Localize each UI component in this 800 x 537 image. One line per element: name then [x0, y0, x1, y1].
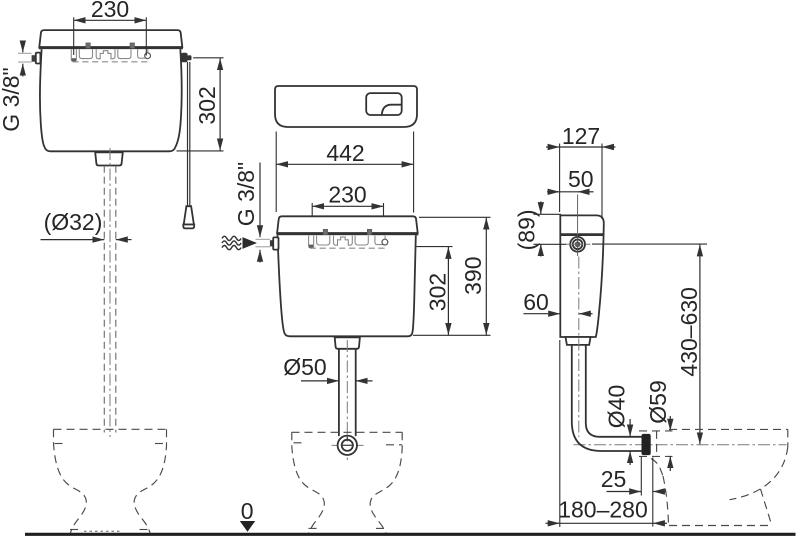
dimension 302 (middle view) [417, 246, 453, 248]
water supply symbol (wavy lines + arrow) [222, 236, 241, 240]
chain handle [184, 206, 194, 224]
svg-text:0: 0 [241, 498, 254, 524]
outlet stub (left view) [95, 152, 123, 165]
svg-text:302: 302 [425, 273, 451, 311]
WC bowl outline (side view, dashed) [669, 428, 788, 430]
dual flush button (top view) [366, 93, 402, 115]
svg-text:390: 390 [460, 257, 486, 295]
cistern side profile [560, 215, 604, 337]
svg-text:230: 230 [91, 0, 129, 22]
svg-text:180–280: 180–280 [558, 497, 648, 523]
pipe centerline (middle view) [346, 340, 348, 462]
cistern lid rim line (left view) [39, 47, 183, 50]
svg-text:25: 25 [601, 466, 627, 492]
flush mechanism (left view, seen through tank) [71, 43, 150, 62]
svg-text:Ø59: Ø59 [645, 380, 671, 423]
cistern tank body (middle view) [278, 235, 416, 336]
pull chain [187, 62, 189, 206]
flush pipe centerline (side view) [578, 257, 580, 438]
cistern lid (left view) [39, 30, 182, 47]
float valve circle [145, 53, 151, 59]
svg-text:127: 127 [562, 123, 600, 149]
svg-text:50: 50 [568, 166, 594, 192]
hidden flush pipe (left view) [103, 166, 105, 433]
pipe end circles (middle view) [338, 436, 357, 455]
svg-text:G 3/8": G 3/8" [233, 162, 259, 226]
svg-text:Ø50: Ø50 [283, 354, 326, 380]
svg-text:430–630: 430–630 [676, 287, 702, 377]
flush pipe with elbow (side view) [572, 345, 642, 451]
cistern tank body (left view) [40, 49, 182, 151]
lid top view [275, 86, 417, 127]
svg-text:302: 302 [194, 86, 220, 124]
flush pipe (middle view) [338, 349, 340, 436]
dimension 430-630 [592, 243, 707, 245]
small flush segment of button [382, 105, 402, 115]
flush mechanism (middle view) [309, 229, 388, 248]
fitting dimension arrows (left) [22, 42, 24, 53]
tank skirt (side view) [566, 337, 591, 345]
flush valve push button (side view) [570, 237, 585, 252]
toilet bowl outline (middle view, dashed) [292, 431, 403, 433]
cistern lid rim line (middle view) [277, 233, 419, 236]
pipe centerline (left view) [109, 148, 111, 437]
WC bowl inlet spigot (dashed) [639, 430, 673, 432]
svg-text:(Ø32): (Ø32) [44, 209, 103, 235]
ground line [25, 533, 796, 536]
mounting studs [86, 43, 90, 48]
lid rim line (side view) [560, 233, 604, 236]
cistern lid (middle view) [277, 216, 418, 233]
svg-text:Ø40: Ø40 [604, 385, 630, 428]
inlet fitting G 3/8 (left view) [32, 55, 36, 62]
rubber connector gasket [642, 434, 651, 455]
svg-text:442: 442 [326, 140, 364, 166]
svg-text:60: 60 [523, 289, 549, 315]
dimension 390 (middle view) [419, 216, 491, 218]
fitting dimension arrows (middle) [259, 163, 261, 238]
svg-text:230: 230 [328, 182, 366, 208]
dimension 302 (left view) [193, 57, 223, 59]
inlet fitting G 3/8 (middle view) [270, 240, 274, 246]
outlet stub (middle view) [335, 337, 360, 349]
toilet bowl outline (left view, dashed) [54, 428, 167, 430]
chain attachment (left view) [181, 53, 188, 62]
svg-text:G 3/8": G 3/8" [0, 67, 24, 131]
